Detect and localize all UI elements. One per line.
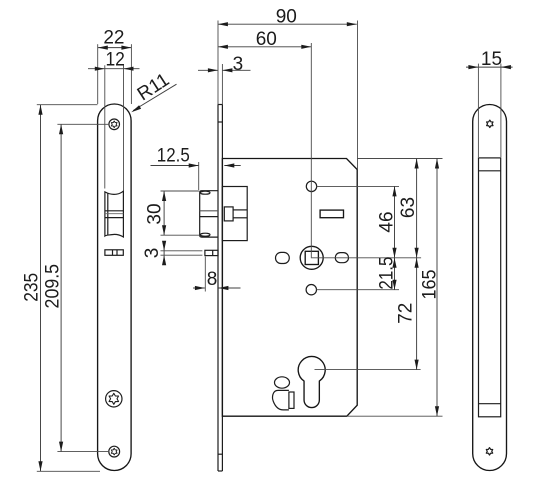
inner box bottom divider: [479, 403, 501, 405]
lock case outline: [222, 159, 357, 417]
left oblong hole: [276, 252, 290, 263]
dim 46 text: [376, 211, 397, 232]
dim 165 text: [419, 270, 440, 300]
spindle follower circle: [300, 246, 323, 269]
dim 209.5 extension lines: [57, 123, 109, 125]
dim 209.5 line: [60, 124, 62, 451]
svg-text:235: 235: [22, 273, 43, 302]
centerline spindle to right: [312, 257, 421, 259]
dim 22 extension lines: [97, 44, 99, 104]
dim 12.5 extension line: [198, 162, 200, 190]
svg-text:12: 12: [105, 49, 125, 70]
dim 3 left line with outside arrows: [163, 243, 165, 264]
dim 30 text: [144, 203, 165, 224]
right bottom torx: [486, 448, 492, 455]
forend plate edge view: [218, 105, 222, 472]
dim 90 line: [218, 23, 357, 25]
dim 3 left text: [142, 248, 163, 259]
dim 3 left extension lines: [161, 250, 203, 252]
dim 12 line with outside arrows: [88, 68, 140, 70]
R11 leader: [133, 84, 176, 110]
latch head side view: [200, 191, 218, 237]
euro cylinder hole: [298, 356, 325, 407]
dim 235 line: [40, 105, 42, 472]
extension body top right: [357, 158, 442, 160]
extension center line 60 down to spindle: [310, 43, 312, 258]
bottom hole: [306, 285, 316, 295]
torx screw big: [106, 391, 122, 407]
dim 21.5 line: [394, 258, 396, 290]
dim 30 line: [163, 191, 165, 235]
svg-text:8: 8: [207, 269, 218, 290]
spindle square: [305, 251, 318, 264]
dim 72 text: [395, 303, 416, 324]
dim 22 line: [98, 47, 132, 49]
centerline top hole to right: [317, 185, 399, 187]
retainer shape: [273, 390, 294, 410]
extension line body right up: [357, 21, 359, 170]
dim 165 line: [436, 159, 438, 417]
svg-text:12.5: 12.5: [157, 145, 190, 166]
small hole left of cylinder: [275, 377, 290, 388]
svg-text:R11: R11: [134, 69, 173, 105]
dim 12 extension lines: [104, 65, 106, 188]
dim 8 line with outside arrows: [193, 287, 205, 289]
centerline bottom hole to right: [316, 289, 399, 291]
top screw S1: [109, 119, 120, 130]
dim 235 extension lines: [37, 104, 98, 106]
latch front view: [105, 191, 124, 237]
svg-text:72: 72: [395, 303, 416, 324]
svg-text:22: 22: [103, 27, 124, 48]
dim 21.5 text: [376, 257, 397, 290]
dim 63 text: [398, 197, 419, 218]
deadbolt slot front view: [105, 250, 123, 256]
slot rectangle: [320, 210, 343, 218]
bottom screw S2: [109, 446, 120, 457]
dim 209.5 text: [42, 264, 63, 309]
dim 63 line: [416, 159, 418, 258]
svg-text:3: 3: [142, 248, 163, 259]
R11 text: [134, 69, 173, 105]
svg-text:63: 63: [398, 197, 419, 218]
right top torx: [487, 120, 493, 127]
deadbolt side view: [205, 250, 218, 255]
dim 30 extension lines: [161, 190, 200, 192]
svg-text:3: 3: [233, 54, 244, 75]
extension line plate left up: [217, 21, 219, 105]
dim 72 line: [416, 258, 418, 370]
dim 8 extension line: [204, 257, 206, 292]
svg-text:30: 30: [144, 203, 165, 224]
right oblong hole: [335, 253, 348, 263]
extension line plate right up: [221, 64, 223, 105]
svg-text:209.5: 209.5: [42, 264, 63, 309]
latch tail: [224, 207, 247, 221]
dim 60 line: [218, 46, 311, 48]
latch housing: [222, 187, 247, 241]
right plate outline: [473, 105, 507, 471]
dim 235 text: [22, 273, 43, 302]
dim 12.5 line: [151, 165, 199, 167]
right plate inner box: [479, 158, 501, 417]
inner box top divider: [479, 170, 501, 172]
dim 3 top line with outside arrows: [198, 69, 218, 71]
extension body bottom right: [347, 415, 443, 417]
dim 46 line: [394, 186, 396, 257]
dim 15 line with outside arrows: [466, 66, 513, 68]
top hole: [306, 181, 316, 191]
centerline cylinder to right: [315, 369, 421, 371]
faceplate outline: [98, 104, 132, 471]
dim 15 extension lines: [477, 64, 479, 157]
